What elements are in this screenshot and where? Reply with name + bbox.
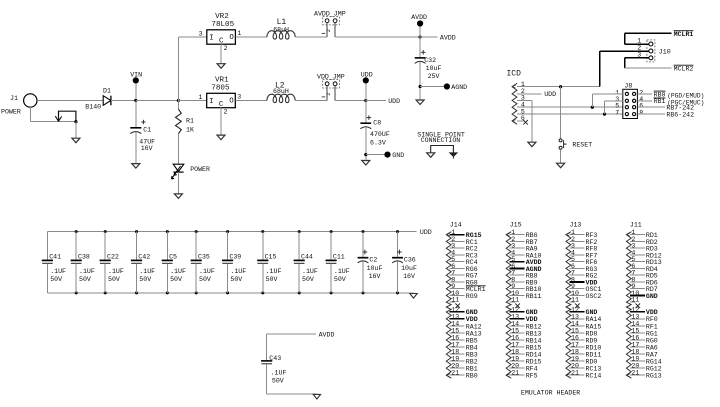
J13 pin 16 RD9 <box>569 334 597 344</box>
svg-text:12: 12 <box>571 306 579 313</box>
svg-text:MCLR2: MCLR2 <box>674 65 694 72</box>
wire L2 to VDD_JMP <box>295 100 327 102</box>
J13 pin 13 RA14 <box>569 313 601 323</box>
svg-text:13: 13 <box>631 313 639 320</box>
J13 pin 15 RD8 <box>569 327 597 337</box>
svg-text:14: 14 <box>511 320 519 327</box>
svg-text:19: 19 <box>451 356 459 363</box>
J11 pin 12 VDD <box>630 306 658 316</box>
capacitor C22 .1UF 50V <box>100 230 124 294</box>
J15 pin 2 RB7 <box>510 236 538 246</box>
svg-text:2: 2 <box>326 93 332 96</box>
svg-text:RD8: RD8 <box>586 330 598 337</box>
svg-text:78L05: 78L05 <box>211 21 234 29</box>
svg-text:RB0: RB0 <box>466 372 478 379</box>
node AGND terminal <box>444 83 467 91</box>
svg-text:VDD_JMP: VDD_JMP <box>317 73 345 80</box>
svg-text:D1: D1 <box>103 88 111 95</box>
svg-text:12: 12 <box>451 306 459 313</box>
J11 pin 11 no connect <box>630 297 640 309</box>
ground at VR1 pin 2 <box>217 135 225 140</box>
J13 pin 10 OSC2 <box>569 290 601 300</box>
svg-text:J13: J13 <box>570 221 582 228</box>
ground at C1 <box>132 164 140 169</box>
svg-text:470UF: 470UF <box>370 131 390 138</box>
svg-text:10uF: 10uF <box>401 265 417 272</box>
J11 pin 15 RG1 <box>630 327 658 337</box>
J13 pin 2 RF2 <box>569 236 597 246</box>
capacitor C42 .1UF 50V <box>131 230 155 294</box>
regulator VR2 78L05 <box>178 13 241 64</box>
svg-text:RA7: RA7 <box>646 351 658 358</box>
svg-text:21: 21 <box>511 370 519 377</box>
svg-text:15: 15 <box>631 327 639 334</box>
wire jack barrel to switch <box>30 107 76 122</box>
svg-text:.1UF: .1UF <box>334 268 350 275</box>
svg-text:CONNECTION: CONNECTION <box>421 137 461 144</box>
J14 pin 7 RG7 <box>450 270 478 280</box>
svg-text:C38: C38 <box>78 253 90 260</box>
svg-text:RA6: RA6 <box>646 344 658 351</box>
svg-text:C35: C35 <box>198 253 210 260</box>
svg-text:J10: J10 <box>659 48 671 55</box>
capacitor C35 .1UF 50V <box>191 230 215 294</box>
svg-text:RA13: RA13 <box>466 330 482 337</box>
svg-text:20: 20 <box>451 363 459 370</box>
J13 pin 9 OSC1 <box>569 283 601 293</box>
svg-text:18: 18 <box>571 348 579 355</box>
svg-text:RF1: RF1 <box>646 323 658 330</box>
node VDD terminal <box>361 71 373 100</box>
inductor L2 68uH <box>267 81 295 102</box>
J13 pin 21 RC14 <box>569 370 601 380</box>
svg-text:13: 13 <box>571 313 579 320</box>
svg-text:RESET: RESET <box>572 142 592 149</box>
svg-text:2: 2 <box>326 29 332 32</box>
J11 pin 18 RA7 <box>630 348 658 358</box>
wire D1 to VIN node <box>111 100 136 102</box>
svg-text:EMULATOR HEADER: EMULATOR HEADER <box>521 389 580 396</box>
J15 pin 13 VDD <box>510 313 538 323</box>
J11 pin 21 RG13 <box>630 370 662 380</box>
svg-text:3: 3 <box>237 94 241 101</box>
ground at end of bottom rail <box>410 294 417 299</box>
jack switch contact <box>55 111 77 138</box>
svg-text:RD10: RD10 <box>586 344 602 351</box>
J15 pin 4 RA10 <box>510 249 542 259</box>
wire J1 to D1 <box>37 100 103 102</box>
J15 pin 10 RB11 <box>510 290 542 300</box>
svg-text:17: 17 <box>631 341 639 348</box>
J11 pin 4 RD12 <box>630 249 662 259</box>
svg-text:RG14: RG14 <box>646 358 662 365</box>
ground below C32 <box>416 100 424 105</box>
J13 pin 11 no connect <box>569 297 579 309</box>
svg-text:16V: 16V <box>369 273 381 280</box>
svg-text:GND: GND <box>526 309 538 316</box>
svg-text:C42: C42 <box>138 253 150 260</box>
svg-text:UDD: UDD <box>544 91 556 98</box>
J11 pin 9 RD7 <box>630 283 658 293</box>
svg-text:RG12: RG12 <box>646 365 662 372</box>
J14 pin 8 RG8 <box>450 276 478 286</box>
J14 pin 5 RC4 <box>450 256 478 266</box>
svg-text:RC13: RC13 <box>586 365 602 372</box>
svg-text:O: O <box>229 98 234 106</box>
J15 pin 5 AVDD <box>510 256 542 266</box>
wire C32 to AGND <box>420 86 444 88</box>
single point connection grounds <box>427 146 458 159</box>
wire VIN down <box>134 83 137 102</box>
svg-text:RB5: RB5 <box>466 337 478 344</box>
J14 pin 11 no connect <box>450 297 460 309</box>
J14 pin 20 RB1 <box>450 363 478 373</box>
svg-text:15: 15 <box>451 327 459 334</box>
node GND terminal <box>384 152 404 160</box>
svg-text:50V: 50V <box>139 276 151 283</box>
svg-text:20: 20 <box>511 363 519 370</box>
svg-text:C43: C43 <box>269 355 281 362</box>
svg-text:C22: C22 <box>107 253 119 260</box>
svg-text:50V: 50V <box>302 276 314 283</box>
J13 pin 8 VDD <box>569 276 597 286</box>
svg-text:14: 14 <box>631 320 639 327</box>
svg-text:RG9: RG9 <box>466 293 478 300</box>
capacitor C8 470UF 6.3V <box>360 101 389 161</box>
J13 pin 17 RD10 <box>569 341 601 351</box>
node AVDD terminal <box>411 14 427 37</box>
J15 pin 16 RB14 <box>510 334 542 344</box>
svg-text:50V: 50V <box>230 276 242 283</box>
svg-text:15: 15 <box>571 327 579 334</box>
svg-text:16: 16 <box>451 334 459 341</box>
J11 pin 8 RD6 <box>630 276 658 286</box>
J14 pin 17 RB4 <box>450 341 478 351</box>
svg-text:C39: C39 <box>229 253 241 260</box>
J11 pin 14 RF1 <box>630 320 658 330</box>
header J14 emulator connector <box>446 221 461 378</box>
svg-text:OSC2: OSC2 <box>586 293 602 300</box>
wire ICD pin2 VDD <box>517 91 556 98</box>
header J15 emulator connector <box>506 221 521 378</box>
svg-text:VR1: VR1 <box>215 76 229 84</box>
capacitor C15 .1UF 50V <box>257 230 281 294</box>
svg-text:RB13: RB13 <box>526 330 542 337</box>
J11 pin 10 GND <box>630 290 658 300</box>
J15 pin 15 RB13 <box>510 327 542 337</box>
capacitor C43 .1UF 50V on AVDD <box>261 334 286 394</box>
svg-text:.1UF: .1UF <box>271 370 287 377</box>
J14 pin 6 RG6 <box>450 263 478 273</box>
J13 pin 7 RG2 <box>569 270 597 280</box>
ground below LED <box>174 194 182 199</box>
wire J8 pin8 RB6-242 <box>637 112 694 119</box>
J15 pin 11 no connect <box>510 297 520 309</box>
node VIN terminal <box>130 71 142 83</box>
regulator VR1 7805 <box>199 76 242 135</box>
J14 pin 12 GND <box>450 306 478 316</box>
svg-text:2: 2 <box>224 45 228 52</box>
svg-text:GND: GND <box>392 152 404 159</box>
svg-text:.1UF: .1UF <box>230 268 246 275</box>
connector ICD <box>507 69 525 124</box>
svg-text:14: 14 <box>571 320 579 327</box>
J13 pin 1 RF3 <box>569 229 597 239</box>
ground at VR2 pin 2 <box>217 64 225 68</box>
wire VDD_JMP to VDD rail <box>335 98 400 105</box>
J15 pin 3 RA9 <box>510 243 538 253</box>
net label MCLR1 <box>674 31 694 38</box>
J14 pin 13 VDD <box>450 313 478 323</box>
svg-text:AVDD: AVDD <box>411 14 427 21</box>
svg-text:3: 3 <box>199 31 203 38</box>
header J8 <box>615 83 643 119</box>
jumper VDD_JMP <box>317 73 345 100</box>
J11 pin 13 RF0 <box>630 313 658 323</box>
svg-text:12: 12 <box>511 306 519 313</box>
J11 pin 17 RA6 <box>630 341 658 351</box>
svg-text:20: 20 <box>571 363 579 370</box>
svg-text:C8: C8 <box>373 120 381 127</box>
svg-text:ICD: ICD <box>507 69 522 78</box>
J11 pin 20 RG12 <box>630 363 662 373</box>
svg-text:RA14: RA14 <box>586 316 602 323</box>
svg-text:RB2: RB2 <box>466 358 478 365</box>
svg-text:12: 12 <box>631 306 639 313</box>
svg-text:1: 1 <box>199 94 203 101</box>
resistor R1 1K <box>176 101 194 165</box>
J11 pin 2 RD2 <box>630 236 658 246</box>
J14 pin 3 RC2 <box>450 243 478 253</box>
svg-text:VDD: VDD <box>526 316 538 323</box>
svg-text:AVDD_JMP: AVDD_JMP <box>314 10 346 17</box>
J15 pin 20 RF4 <box>510 363 538 373</box>
capacitor C2 10uF 16V <box>358 230 383 294</box>
svg-text:VR2: VR2 <box>215 13 229 21</box>
svg-text:POWER: POWER <box>1 109 21 116</box>
ground below C8 <box>362 161 370 166</box>
svg-text:RD15: RD15 <box>526 358 542 365</box>
ICD pin6 no connect <box>517 120 528 125</box>
svg-text:RA15: RA15 <box>586 323 602 330</box>
J13 pin 5 RF6 <box>569 256 597 266</box>
J13 pin 12 GND <box>569 306 597 316</box>
J13 pin 18 RD11 <box>569 348 601 358</box>
J15 pin 1 RB6 <box>510 229 538 239</box>
svg-text:UDD: UDD <box>361 71 373 78</box>
svg-text:50V: 50V <box>50 276 62 283</box>
J14 pin 1 RG15 <box>450 229 482 239</box>
svg-text:C2: C2 <box>369 257 377 264</box>
J15 pin 7 RB8 <box>510 270 538 280</box>
svg-text:RB6-242: RB6-242 <box>666 112 694 119</box>
J11 pin 19 RG14 <box>630 356 662 366</box>
svg-text:J11: J11 <box>630 221 642 228</box>
svg-text:C15: C15 <box>265 253 277 260</box>
svg-text:RF4: RF4 <box>526 365 538 372</box>
svg-text:GND: GND <box>466 309 478 316</box>
svg-text:68uH: 68uH <box>273 88 289 95</box>
J15 pin 9 RB10 <box>510 283 542 293</box>
svg-text:.1UF: .1UF <box>302 268 318 275</box>
header J11 emulator connector <box>626 221 641 378</box>
wire R1 node up to VR2 input <box>177 37 179 101</box>
svg-text:GND: GND <box>586 309 598 316</box>
J14 pin 2 RC1 <box>450 236 478 246</box>
J14 pin 16 RB5 <box>450 334 478 344</box>
svg-text:50V: 50V <box>266 276 278 283</box>
svg-text:J8: J8 <box>624 83 632 90</box>
J13 pin 4 RF7 <box>569 249 597 259</box>
svg-text:.1UF: .1UF <box>266 268 282 275</box>
wire J8 pin4 RB1 <box>637 98 704 106</box>
LED POWER <box>171 164 210 194</box>
J11 pin 3 RD3 <box>630 243 658 253</box>
svg-text:15: 15 <box>511 327 519 334</box>
J11 pin 5 RD13 <box>630 256 662 266</box>
J15 pin 17 RB15 <box>510 341 542 351</box>
svg-text:1: 1 <box>237 30 241 37</box>
J13 pin 6 RG3 <box>569 263 597 273</box>
svg-text:1K: 1K <box>186 126 194 133</box>
svg-text:8: 8 <box>639 110 643 117</box>
svg-text:10uF: 10uF <box>367 265 383 272</box>
svg-text:GND: GND <box>646 293 658 300</box>
svg-text:RB15: RB15 <box>526 344 542 351</box>
svg-text:19: 19 <box>631 356 639 363</box>
J14 pin 18 RB3 <box>450 348 478 358</box>
svg-text:11: 11 <box>511 297 519 304</box>
svg-text:AVDD: AVDD <box>440 34 456 41</box>
svg-text:50V: 50V <box>170 276 182 283</box>
svg-text:J14: J14 <box>450 221 462 228</box>
J13 pin 20 RC13 <box>569 363 601 373</box>
svg-text:19: 19 <box>571 356 579 363</box>
wire AVDD_JMP to AVDD rail <box>335 34 456 41</box>
svg-text:50V: 50V <box>79 276 91 283</box>
svg-text:RC14: RC14 <box>586 372 602 379</box>
svg-text:RD14: RD14 <box>526 351 542 358</box>
svg-text:.1UF: .1UF <box>50 268 66 275</box>
svg-text:C41: C41 <box>49 253 61 260</box>
capacitor C36 10uF 16V <box>392 230 417 294</box>
wire J10 pin2 to ICD pin1 <box>600 51 649 87</box>
svg-text:RB1: RB1 <box>654 98 666 105</box>
svg-text:J15: J15 <box>510 221 522 228</box>
J11 pin 1 RD1 <box>630 229 658 239</box>
net label MCLR2 <box>674 65 694 72</box>
connector J1 POWER jack <box>1 94 37 116</box>
wire J8 pin6 RB7-242 <box>637 105 694 112</box>
svg-text:16: 16 <box>631 334 639 341</box>
ground at C43 <box>313 394 320 399</box>
J14 pin 21 RB0 <box>450 370 478 380</box>
svg-text:RA12: RA12 <box>466 323 482 330</box>
svg-text:RD9: RD9 <box>586 337 598 344</box>
svg-text:VDD: VDD <box>466 316 478 323</box>
inductor L1 68uH <box>267 18 295 39</box>
svg-text:21: 21 <box>631 370 639 377</box>
svg-text:I: I <box>209 98 213 106</box>
svg-text:UDD: UDD <box>388 98 400 105</box>
svg-text:B140: B140 <box>85 103 101 110</box>
wire ICD pin5 to J8 pin7 <box>517 113 623 116</box>
svg-text:RD11: RD11 <box>586 351 602 358</box>
ground at J1 <box>72 138 80 143</box>
wire J8 pin3 to ICD pin5 net <box>605 101 623 114</box>
J13 pin 3 RF8 <box>569 243 597 253</box>
J11 pin 6 RD4 <box>630 263 658 273</box>
svg-text:7805: 7805 <box>211 84 230 92</box>
svg-text:C5: C5 <box>169 253 177 260</box>
J15 pin 19 RD15 <box>510 356 542 366</box>
svg-text:2: 2 <box>224 108 228 115</box>
svg-text:RB3: RB3 <box>466 351 478 358</box>
svg-text:.1UF: .1UF <box>199 268 215 275</box>
wire VDD top rail of capacitor bank <box>47 229 431 236</box>
svg-text:AVDD: AVDD <box>319 332 335 339</box>
capacitor C41 .1UF 50V <box>42 232 66 293</box>
svg-text:O: O <box>229 34 234 42</box>
wire ICD pin1 MCLR net <box>517 85 600 88</box>
svg-text:19: 19 <box>511 356 519 363</box>
svg-text:C11: C11 <box>333 253 345 260</box>
capacitor C5 .1UF 50V <box>162 230 186 294</box>
wire VR1 output to L2 <box>235 100 267 102</box>
svg-text:RB14: RB14 <box>526 337 542 344</box>
J11 pin 16 RG0 <box>630 334 658 344</box>
ground at ICD pin3 <box>528 142 536 147</box>
svg-text:11: 11 <box>631 297 639 304</box>
svg-text:MCLR1: MCLR1 <box>674 31 694 38</box>
wire ICD pin3 to ground <box>517 100 532 142</box>
svg-text:11: 11 <box>451 297 459 304</box>
single point connection note <box>417 132 465 144</box>
svg-text:RB4: RB4 <box>466 344 478 351</box>
svg-text:C32: C32 <box>424 57 436 64</box>
svg-text:20: 20 <box>631 363 639 370</box>
svg-text:.1UF: .1UF <box>79 268 95 275</box>
svg-text:17: 17 <box>451 341 459 348</box>
svg-text:18: 18 <box>511 348 519 355</box>
svg-text:C44: C44 <box>301 253 313 260</box>
J15 pin 14 RB12 <box>510 320 542 330</box>
J15 pin 18 RD14 <box>510 348 542 358</box>
svg-text:RF0: RF0 <box>646 316 658 323</box>
svg-text:POWER: POWER <box>190 166 210 173</box>
J15 pin 6 AGND <box>510 263 542 273</box>
wire C43 to ground <box>267 393 317 395</box>
ground below RESET <box>557 163 565 168</box>
svg-text:50V: 50V <box>108 276 120 283</box>
svg-text:6.3V: 6.3V <box>370 139 386 146</box>
wire ICD pin4 to J8 pin5 <box>517 106 623 109</box>
svg-text:J1: J1 <box>10 95 18 102</box>
wire C8 to GND <box>366 154 385 156</box>
wire ground bottom rail of capacitor bank <box>47 292 413 294</box>
svg-text:.1UF: .1UF <box>108 268 124 275</box>
svg-text:C1: C1 <box>143 126 151 133</box>
svg-text:R1: R1 <box>186 117 194 124</box>
svg-text:(PGD/EMUD): (PGD/EMUD) <box>667 92 704 99</box>
J14 pin 4 RC3 <box>450 249 478 259</box>
svg-text:RB11: RB11 <box>526 293 542 300</box>
svg-text:11: 11 <box>571 297 579 304</box>
J13 pin 14 RA15 <box>569 320 601 330</box>
header J13 emulator connector <box>566 221 581 378</box>
svg-text:I: I <box>209 35 213 43</box>
svg-text:AGND: AGND <box>451 84 467 91</box>
